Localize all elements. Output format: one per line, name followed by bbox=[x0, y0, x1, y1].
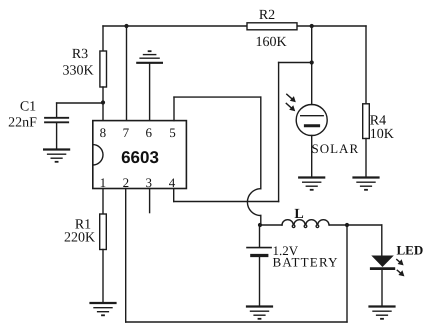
svg-text:7: 7 bbox=[123, 125, 130, 140]
wire top rail right bbox=[297, 25, 366, 27]
LED light arrow 2 bbox=[397, 270, 404, 276]
ground (solar) bbox=[299, 178, 324, 190]
resistor R1 bbox=[64, 189, 106, 303]
svg-text:3: 3 bbox=[146, 175, 153, 190]
ground (LED) bbox=[370, 307, 395, 319]
ground (battery) bbox=[247, 307, 272, 319]
svg-text:4: 4 bbox=[169, 175, 176, 190]
wire pin7 up bbox=[126, 26, 128, 121]
LED D1 bbox=[371, 225, 423, 306]
svg-text:160K: 160K bbox=[255, 35, 286, 50]
wire solar bottom bbox=[311, 136, 313, 178]
capacitor C1 bbox=[8, 100, 103, 150]
svg-text:8: 8 bbox=[100, 125, 107, 140]
solar cell SOLAR bbox=[296, 105, 359, 157]
svg-text:BATTERY: BATTERY bbox=[273, 255, 339, 270]
resistor R2 bbox=[247, 8, 297, 50]
svg-text:1: 1 bbox=[100, 175, 107, 190]
LED light arrow 1 bbox=[397, 259, 404, 265]
ground (R1) bbox=[91, 303, 116, 315]
svg-text:6: 6 bbox=[146, 125, 153, 140]
svg-text:2: 2 bbox=[123, 175, 130, 190]
svg-text:C1: C1 bbox=[20, 100, 36, 115]
inductor L bbox=[260, 207, 382, 228]
svg-text:R3: R3 bbox=[72, 47, 88, 62]
solar light arrow 1 bbox=[287, 94, 296, 102]
svg-text:6603: 6603 bbox=[121, 148, 159, 167]
svg-text:LED: LED bbox=[397, 243, 424, 258]
svg-text:220K: 220K bbox=[64, 231, 95, 246]
wire hop to battery node bbox=[260, 216, 262, 226]
wire pin2 down and bottom rail bbox=[126, 189, 347, 323]
resistor R4 bbox=[363, 26, 394, 177]
wire pin6 up to ground bbox=[149, 63, 151, 121]
wire pin3 stub bbox=[149, 189, 151, 213]
wire solar top bbox=[311, 26, 313, 105]
node junction inductor/LED/bottom rail bbox=[345, 223, 349, 227]
resistor R3 bbox=[62, 26, 106, 121]
node junction R2/solar top bbox=[310, 24, 314, 28]
ground (C1) bbox=[44, 150, 69, 162]
wire hop over pin4 wire bbox=[247, 189, 260, 216]
solar light arrow 2 bbox=[286, 103, 295, 111]
op-amp U1 6603 chip bbox=[93, 121, 187, 190]
node junction pin4 wire / solar wire bbox=[310, 60, 314, 64]
svg-text:SOLAR: SOLAR bbox=[312, 141, 360, 156]
node junction pin7/top rail bbox=[124, 24, 128, 28]
node junction R3/C1/pin8 bbox=[101, 100, 105, 104]
ground (inverted, above pin 6) bbox=[137, 51, 162, 63]
wire top rail left bbox=[103, 25, 247, 27]
wire pin5 loop bbox=[174, 97, 261, 189]
ground (R4) bbox=[354, 178, 379, 190]
battery 1.2V bbox=[247, 225, 339, 306]
wire pin4 to solar node bbox=[174, 63, 312, 202]
svg-text:L: L bbox=[294, 207, 303, 222]
svg-text:330K: 330K bbox=[62, 64, 93, 79]
svg-text:22nF: 22nF bbox=[8, 116, 37, 131]
svg-text:10K: 10K bbox=[370, 127, 394, 142]
svg-text:R2: R2 bbox=[259, 8, 275, 23]
svg-text:5: 5 bbox=[169, 125, 176, 140]
node junction battery/inductor bbox=[258, 223, 262, 227]
